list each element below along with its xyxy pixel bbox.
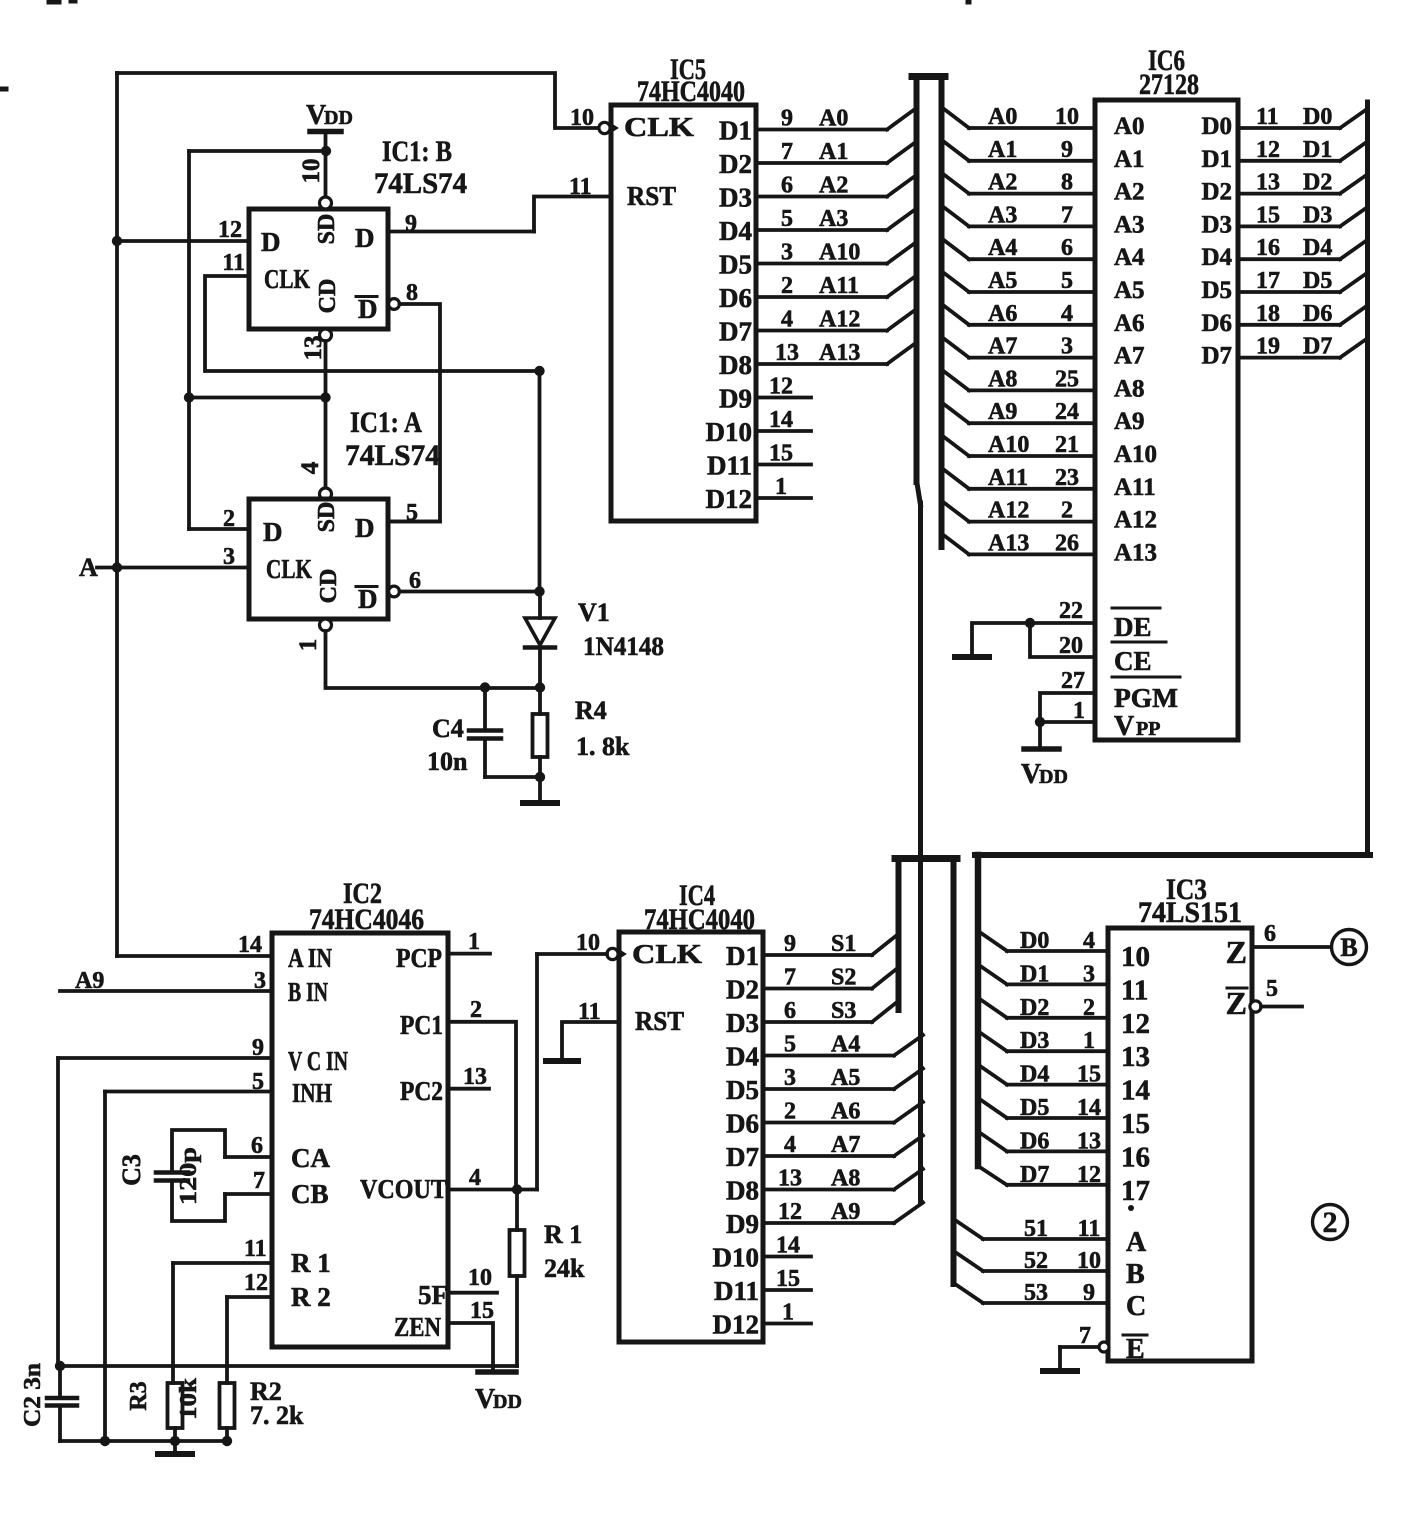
svg-text:12: 12: [218, 217, 242, 243]
svg-text:A6: A6: [988, 301, 1017, 327]
IC6 address input A12 (pin 2): [944, 498, 1157, 534]
svg-text:7: 7: [1061, 202, 1073, 228]
IC6 address input A5 (pin 5): [944, 268, 1145, 304]
IC4 output D8 (pin 13 net A8): [726, 1166, 923, 1206]
svg-text:5: 5: [781, 206, 793, 232]
IC2 pin 6 CA wire: [225, 1133, 330, 1173]
IC3 pin 5 Zbar output: [1226, 976, 1302, 1021]
svg-text:13: 13: [300, 336, 327, 361]
svg-text:1: 1: [295, 639, 322, 652]
svg-text:V1: V1: [578, 598, 610, 627]
IC4 inside RST: [635, 1006, 684, 1036]
counter IC4 label: [644, 879, 755, 936]
svg-text:14: 14: [1121, 1075, 1150, 1107]
svg-text:6: 6: [251, 1133, 263, 1159]
svg-text:D6: D6: [1020, 1128, 1049, 1154]
IC6 pin 22 DE wire: [1030, 598, 1160, 642]
bus data trunk left vertical: [978, 855, 1007, 1185]
svg-text:19: 19: [1256, 334, 1280, 360]
svg-text:D4: D4: [726, 1042, 759, 1072]
svg-text:PCP: PCP: [396, 943, 442, 973]
svg-text:10n: 10n: [427, 747, 468, 776]
IC4 CLK bubble: [607, 948, 626, 959]
IC1:B pin 9 wire: [388, 211, 534, 237]
svg-text:R 1: R 1: [544, 1220, 582, 1249]
svg-text:27128: 27128: [1139, 68, 1199, 101]
flip-flop IC1:A label: [345, 406, 440, 472]
svg-text:CLK: CLK: [264, 264, 310, 294]
svg-text:6: 6: [1061, 235, 1073, 261]
IC3 pin 7 E wire: [1060, 1323, 1147, 1365]
IC3 data input D4 (pin 15): [978, 1062, 1150, 1107]
svg-text:11: 11: [1121, 974, 1148, 1006]
svg-text:2: 2: [470, 997, 482, 1023]
svg-text:52: 52: [1024, 1248, 1048, 1274]
IC3 select input 52 (pin 10): [954, 1248, 1145, 1290]
ground IC3 E: [1043, 1347, 1077, 1371]
svg-text:A9: A9: [75, 968, 104, 994]
counter IC5 label: [637, 53, 745, 108]
diode V1: [525, 594, 664, 688]
svg-text:14: 14: [776, 1233, 800, 1259]
svg-text:16: 16: [1121, 1141, 1150, 1173]
svg-text:S2: S2: [831, 965, 856, 991]
svg-text:D7: D7: [1020, 1162, 1049, 1188]
svg-text:3: 3: [781, 240, 793, 266]
svg-text:4: 4: [784, 1132, 796, 1158]
svg-text:10: 10: [1121, 941, 1150, 973]
junction INH/ground rail: [100, 1092, 110, 1447]
svg-text:D: D: [358, 294, 378, 324]
IC6 address input A6 (pin 4): [944, 301, 1145, 337]
svg-text:6: 6: [781, 173, 793, 199]
IC4 pin 11 RST wire: [562, 999, 619, 1058]
IC5 output D3 (pin 6 net A2): [719, 173, 913, 213]
svg-text:A1: A1: [819, 139, 848, 165]
svg-text:2: 2: [1083, 995, 1095, 1021]
svg-text:A0: A0: [1114, 113, 1145, 140]
wire A-net vertical trunk: [115, 73, 119, 956]
IC4 output D12 (pin 1): [713, 1300, 812, 1340]
svg-text:Z: Z: [1226, 934, 1247, 970]
IC5 output D10 (pin 14): [706, 407, 812, 447]
IC2 pin 12 R2 wire: [227, 1270, 331, 1312]
svg-text:12: 12: [1077, 1162, 1101, 1188]
svg-text:PGM: PGM: [1114, 683, 1178, 713]
svg-text:A9: A9: [1114, 408, 1145, 435]
IC1:A pin 5 wire: [388, 500, 440, 526]
svg-text:D8: D8: [726, 1176, 759, 1206]
svg-text:5: 5: [1061, 268, 1073, 294]
svg-text:15: 15: [776, 1266, 800, 1292]
svg-text:A1: A1: [988, 137, 1017, 163]
svg-text:A3: A3: [988, 202, 1017, 228]
IC1:B CD bubble and stem: [300, 329, 332, 398]
IC1:B pin 11 wire: [205, 250, 540, 371]
junction rail/CD line: [184, 392, 194, 402]
IC5 output D11 (pin 15): [707, 441, 811, 481]
svg-text:15: 15: [769, 441, 793, 467]
svg-text:A2: A2: [988, 170, 1017, 196]
svg-text:C: C: [1126, 1291, 1146, 1322]
svg-text:2: 2: [784, 1099, 796, 1125]
svg-text:53: 53: [1024, 1280, 1048, 1306]
svg-text:Z: Z: [1226, 985, 1247, 1021]
IC5 inside RST: [627, 181, 676, 211]
svg-text:D0: D0: [1020, 928, 1049, 954]
svg-text:INH: INH: [292, 1078, 332, 1108]
PLL IC2 label: [309, 877, 424, 936]
svg-text:D12: D12: [706, 484, 753, 514]
scan artifact marks at page edge: [0, 0, 971, 91]
svg-text:13: 13: [1256, 170, 1280, 196]
svg-text:DD: DD: [493, 1391, 522, 1413]
svg-text:A9: A9: [988, 399, 1017, 425]
svg-text:2: 2: [1323, 1206, 1338, 1239]
svg-text:10: 10: [298, 159, 325, 184]
IC6 address input A7 (pin 3): [944, 334, 1145, 370]
svg-text:A IN: A IN: [288, 943, 332, 973]
IC3 select input 53 (pin 9): [954, 1280, 1147, 1322]
IC2 pin 7 CB wire: [225, 1168, 329, 1209]
svg-text:D6: D6: [726, 1109, 759, 1139]
svg-text:A11: A11: [1114, 474, 1156, 501]
wire bottom VDD rail: [60, 1364, 517, 1368]
svg-text:9: 9: [1061, 137, 1073, 163]
capacitor C4: [427, 688, 540, 778]
svg-text:D1: D1: [1303, 137, 1332, 163]
svg-text:14: 14: [769, 407, 793, 433]
svg-text:13: 13: [1121, 1041, 1150, 1073]
svg-text:A13: A13: [1114, 539, 1157, 566]
svg-text:DD: DD: [1039, 766, 1068, 788]
IC6 data output D5 (pin 17): [1201, 268, 1367, 304]
IC2 pin 9 VCIN wire: [58, 1035, 348, 1076]
svg-text:12: 12: [244, 1270, 268, 1296]
svg-text:5F: 5F: [418, 1280, 448, 1310]
IC6 data output D7 (pin 19): [1201, 334, 1367, 370]
svg-text:A12: A12: [1114, 507, 1157, 534]
node B circle: [1332, 930, 1367, 965]
svg-text:D9: D9: [719, 384, 752, 414]
IC6 address input A10 (pin 21): [944, 432, 1157, 468]
IC4 output D9 (pin 12 net A9): [726, 1199, 923, 1239]
IC3 data input D6 (pin 13): [978, 1128, 1150, 1173]
svg-text:5: 5: [252, 1069, 264, 1095]
resistor R1: [510, 1190, 586, 1367]
svg-text:D5: D5: [1020, 1095, 1049, 1121]
svg-text:D11: D11: [714, 1276, 759, 1306]
IC5 CLK bubble: [599, 122, 618, 133]
svg-text:9: 9: [1083, 1280, 1095, 1306]
IC6 pin 27 PGM wire: [1040, 668, 1180, 722]
IC6 address input A8 (pin 25): [944, 366, 1145, 402]
IC5 inside CLK: [624, 112, 694, 142]
IC4 output D3 (pin 6 net S3): [726, 998, 897, 1038]
svg-text:1: 1: [782, 1300, 794, 1326]
IC2 right labels: [360, 943, 448, 1342]
svg-text:B: B: [1126, 1259, 1145, 1290]
IC2 pin 3 BIN wire: [60, 968, 328, 1007]
svg-text:D3: D3: [1020, 1028, 1049, 1054]
svg-text:E: E: [1126, 1334, 1145, 1365]
IC6 address input A0 (pin 10): [944, 104, 1145, 140]
svg-text:A7: A7: [988, 334, 1017, 360]
svg-text:CA: CA: [291, 1143, 330, 1173]
svg-text:D3: D3: [719, 183, 752, 213]
svg-text:VCOUT: VCOUT: [360, 1174, 447, 1204]
svg-text:D12: D12: [713, 1310, 760, 1340]
svg-text:D6: D6: [1303, 301, 1332, 327]
resistor R4: [533, 688, 631, 778]
svg-text:A: A: [1126, 1227, 1147, 1258]
svg-text:A8: A8: [831, 1166, 860, 1192]
svg-text:D2: D2: [1201, 179, 1232, 206]
IC6 data output D2 (pin 13): [1201, 170, 1367, 206]
svg-text:22: 22: [1059, 598, 1083, 624]
junction PGM/VPP: [1035, 717, 1045, 727]
power VDD (top): [306, 100, 353, 196]
svg-text:10: 10: [1055, 104, 1079, 130]
svg-text:13: 13: [463, 1064, 487, 1090]
svg-text:D7: D7: [1303, 334, 1332, 360]
label 10k: [176, 1377, 202, 1420]
svg-text:A13: A13: [819, 340, 860, 366]
svg-text:R 1: R 1: [291, 1248, 331, 1278]
svg-text:CB: CB: [291, 1179, 329, 1209]
svg-text:A7: A7: [831, 1132, 860, 1158]
IC2 pin 15 ZEN wire: [448, 1298, 494, 1372]
svg-text:A0: A0: [819, 106, 848, 132]
svg-text:SD: SD: [314, 214, 340, 245]
svg-text:D7: D7: [1201, 343, 1232, 370]
IC5 output D5 (pin 3 net A10): [719, 240, 913, 280]
figure number circle 2: [1313, 1205, 1348, 1240]
power VDD at IC2: [475, 1372, 522, 1415]
svg-text:B: B: [1340, 933, 1357, 962]
bus lower trunk S-line: [896, 858, 902, 1010]
IC5 output D6 (pin 2 net A11): [719, 273, 913, 313]
svg-text:10: 10: [576, 930, 600, 956]
svg-text:A1: A1: [1114, 146, 1145, 173]
IC2 pin 13 PC2 stub: [448, 1064, 489, 1090]
junction VDD stem: [321, 146, 331, 156]
svg-text:PC2: PC2: [400, 1076, 443, 1106]
svg-text:D0: D0: [1201, 113, 1232, 140]
ground IC6 control: [955, 654, 989, 660]
IC4 inside CLK: [632, 939, 702, 969]
svg-text:7: 7: [1079, 1323, 1091, 1349]
ground below R4: [523, 777, 557, 803]
IC4 output D10 (pin 14): [713, 1233, 812, 1273]
svg-text:A12: A12: [988, 498, 1029, 524]
svg-text:A4: A4: [988, 235, 1017, 261]
svg-text:5: 5: [784, 1032, 796, 1058]
svg-text:D4: D4: [1020, 1062, 1049, 1088]
ground IC4 RST: [546, 1058, 578, 1064]
svg-text:3: 3: [1083, 961, 1095, 987]
bus data trunk right: [1365, 102, 1370, 853]
svg-text:A8: A8: [988, 366, 1017, 392]
svg-text:C4: C4: [432, 714, 464, 743]
svg-text:D6: D6: [1201, 310, 1232, 337]
power VDD at IC6: [1021, 722, 1068, 790]
svg-text:4: 4: [1061, 301, 1073, 327]
svg-text:1. 8k: 1. 8k: [576, 732, 630, 761]
svg-text:D4: D4: [719, 216, 752, 246]
wire CD/SD tie line: [189, 396, 326, 400]
svg-text:13: 13: [1077, 1128, 1101, 1154]
IC6 address input A11 (pin 23): [944, 465, 1156, 501]
IC5 output D4 (pin 5 net A3): [719, 206, 913, 246]
wire A-net to IC5 CLK (top): [117, 73, 598, 128]
svg-text:IC1: A: IC1: A: [350, 406, 422, 439]
svg-text:CD: CD: [316, 569, 342, 604]
svg-text:10: 10: [1077, 1248, 1101, 1274]
svg-text:D2: D2: [1020, 995, 1049, 1021]
flip-flop IC1:B body: [249, 209, 388, 329]
IC6 data output D0 (pin 11): [1201, 104, 1367, 140]
junction rail top: [534, 366, 544, 376]
svg-text:1N4148: 1N4148: [583, 632, 664, 661]
IC1:A pin 6 wire: [389, 568, 540, 597]
svg-text:11: 11: [1078, 1216, 1101, 1242]
IC4 output D4 (pin 5 net A4): [726, 1032, 923, 1072]
svg-text:7: 7: [253, 1168, 265, 1194]
flip-flop IC1:A body: [249, 499, 388, 619]
svg-text:3: 3: [1061, 334, 1073, 360]
svg-text:120p: 120p: [176, 1147, 202, 1205]
IC4 output D11 (pin 15): [714, 1266, 811, 1306]
svg-text:D: D: [355, 513, 375, 543]
svg-text:14: 14: [1077, 1095, 1101, 1121]
svg-text:9: 9: [405, 211, 417, 237]
IC4 output D7 (pin 4 net A7): [726, 1132, 923, 1172]
svg-text:2: 2: [223, 506, 235, 532]
bus lower trunk out-line: [951, 858, 957, 1284]
IC2 pin 5 INH wire: [105, 1069, 332, 1108]
wire vertical x189 (SD/CD rail): [187, 151, 191, 529]
IC6 data output D1 (pin 12): [1201, 137, 1367, 173]
svg-text:B IN: B IN: [288, 977, 328, 1007]
svg-text:24: 24: [1055, 399, 1079, 425]
svg-text:2: 2: [781, 273, 793, 299]
svg-text:18: 18: [1256, 301, 1280, 327]
wire CLK-B rail down to V1: [538, 371, 542, 594]
svg-text:D2: D2: [726, 975, 759, 1005]
svg-text:C2 3n: C2 3n: [20, 1363, 46, 1427]
wire ground rail: [60, 1439, 227, 1443]
svg-text:12: 12: [1121, 1008, 1150, 1040]
svg-text:D3: D3: [726, 1008, 759, 1038]
svg-text:15: 15: [1077, 1062, 1101, 1088]
svg-text:4: 4: [781, 307, 793, 333]
svg-text:2: 2: [1061, 498, 1073, 524]
svg-text:A12: A12: [819, 307, 860, 333]
IC2 pin 4 VCOUT wire: [448, 1165, 537, 1191]
bus address trunk center line: [918, 503, 923, 1202]
IC6 address input A9 (pin 24): [944, 399, 1145, 435]
svg-text:4: 4: [1083, 928, 1095, 954]
svg-text:D7: D7: [719, 317, 752, 347]
svg-text:R4: R4: [575, 696, 607, 725]
svg-text:D5: D5: [726, 1075, 759, 1105]
svg-text:27: 27: [1061, 668, 1085, 694]
svg-text:C3: C3: [117, 1154, 146, 1186]
svg-text:D1: D1: [719, 116, 752, 146]
svg-text:D1: D1: [726, 941, 759, 971]
svg-text:D5: D5: [1303, 268, 1332, 294]
svg-text:D2: D2: [1303, 170, 1332, 196]
svg-text:A11: A11: [988, 465, 1028, 491]
ground symbol bottom: [158, 1441, 192, 1454]
svg-text:A10: A10: [988, 432, 1029, 458]
svg-text:D3: D3: [1303, 202, 1332, 228]
svg-text:15: 15: [1256, 202, 1280, 228]
counter IC5 body: [611, 105, 756, 521]
svg-text:D2: D2: [719, 149, 752, 179]
svg-text:D4: D4: [1201, 244, 1232, 271]
svg-text:1: 1: [468, 929, 480, 955]
svg-text:1: 1: [775, 474, 787, 500]
svg-text:PP: PP: [1136, 718, 1160, 740]
IC1:B inside labels: [261, 214, 378, 324]
svg-text:3: 3: [254, 968, 266, 994]
svg-text:7: 7: [781, 139, 793, 165]
svg-text:14: 14: [238, 932, 262, 958]
junction rail/C2: [55, 1361, 65, 1371]
node junction A/pin3: [112, 562, 122, 572]
svg-text:D11: D11: [707, 451, 752, 481]
mux IC3 body: [1108, 928, 1252, 1361]
svg-text:17: 17: [1256, 268, 1280, 294]
IC6 data output D3 (pin 15): [1201, 202, 1367, 238]
junction VCOUT/R1: [512, 1184, 522, 1194]
svg-text:23: 23: [1055, 465, 1079, 491]
IC6 data output D6 (pin 18): [1201, 301, 1367, 337]
svg-text:CD: CD: [315, 279, 341, 314]
IC1:A CD bubble and stem: [295, 619, 540, 688]
svg-text:A6: A6: [831, 1099, 860, 1125]
junction DE/CE: [1025, 618, 1035, 628]
IC3 data input D5 (pin 14): [978, 1095, 1150, 1140]
junction diode/C4 line: [535, 682, 545, 692]
IC2 pin 2 PC1 wire: [448, 997, 516, 1190]
IC1:A pin 2 wire: [189, 506, 249, 532]
svg-text:74LS151: 74LS151: [1138, 896, 1242, 929]
junction pin6/diode rail: [534, 586, 544, 596]
svg-text:13: 13: [778, 1166, 802, 1192]
junction CD/SD tie: [320, 392, 330, 402]
IC3 select input 51 (pin 11): [954, 1216, 1148, 1258]
junction R2/ground rail: [222, 1436, 232, 1446]
svg-text:CLK: CLK: [632, 939, 702, 969]
svg-text:A9: A9: [831, 1199, 860, 1225]
IC4 output D2 (pin 7 net S2): [726, 965, 897, 1005]
svg-text:20: 20: [1059, 633, 1083, 659]
svg-text:D6: D6: [719, 283, 752, 313]
svg-text:10: 10: [468, 1265, 492, 1291]
svg-text:7. 2k: 7. 2k: [250, 1401, 304, 1430]
svg-text:A0: A0: [988, 104, 1017, 130]
svg-text:12: 12: [778, 1199, 802, 1225]
svg-text:10: 10: [570, 105, 594, 131]
svg-text:8: 8: [1061, 170, 1073, 196]
IC6 address input A4 (pin 6): [944, 235, 1145, 271]
bus data trunk horizontal: [975, 852, 1370, 858]
svg-text:V C IN: V C IN: [288, 1046, 348, 1076]
svg-text:6: 6: [1264, 921, 1276, 947]
